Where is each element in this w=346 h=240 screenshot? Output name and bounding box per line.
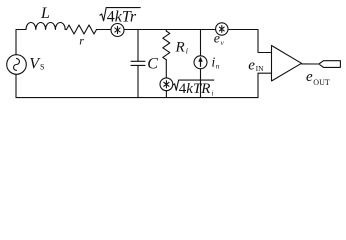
svg-text:i: i bbox=[212, 90, 214, 98]
sine symbol in VS bbox=[14, 59, 20, 71]
asterisk in noise source sqrt(4kTRi) bbox=[164, 81, 169, 88]
noise source circle sqrt(4kTr) bbox=[111, 24, 124, 37]
current source in branch top wire bbox=[200, 30, 202, 56]
current source in arrow bbox=[199, 57, 203, 67]
capacitor branch bottom wire bbox=[137, 65, 139, 97]
inductor L body bbox=[26, 23, 65, 30]
wire Ri to noise source bbox=[165, 60, 167, 78]
current source in branch bottom wire bbox=[200, 69, 202, 98]
svg-text:C: C bbox=[147, 55, 158, 72]
resistor r body bbox=[67, 25, 97, 34]
op-amp U1 triangle bbox=[272, 46, 302, 82]
svg-text:i: i bbox=[211, 56, 215, 71]
output connector bbox=[319, 61, 341, 68]
noise source circle sqrt(4kTRi) bbox=[160, 78, 173, 91]
svg-text:e: e bbox=[306, 69, 313, 85]
voltage source VS circle bbox=[7, 55, 27, 75]
wire resistor to noise source bbox=[97, 29, 112, 31]
svg-text:e: e bbox=[248, 58, 255, 74]
resistor Ri branch top wire bbox=[165, 30, 167, 32]
wire inductor to resistor bbox=[65, 29, 66, 31]
resistor Ri body bbox=[163, 31, 170, 60]
radical sign of sqrt(4kTr) bbox=[100, 8, 140, 21]
wire left vertical bottom bbox=[15, 74, 17, 97]
wire noise source to bottom rail bbox=[165, 91, 167, 98]
wire top middle bbox=[124, 29, 216, 31]
current source in circle bbox=[194, 56, 207, 69]
svg-text:r: r bbox=[79, 34, 84, 48]
asterisk in noise source sqrt(4kTr) bbox=[115, 26, 120, 33]
wire top right to amp input bbox=[228, 30, 272, 53]
svg-text:i: i bbox=[186, 47, 188, 56]
asterisk in noise source ev bbox=[219, 26, 224, 33]
wire bottom input to amp bbox=[258, 73, 272, 97]
svg-text:e: e bbox=[214, 32, 220, 47]
svg-text:n: n bbox=[216, 62, 220, 71]
radical sign of sqrt(4kTRi) bbox=[173, 80, 214, 90]
svg-text:R: R bbox=[175, 39, 185, 55]
capacitor C plates bbox=[131, 61, 145, 65]
wire amp output bbox=[302, 63, 319, 65]
noise source circle ev bbox=[216, 23, 228, 35]
svg-text:OUT: OUT bbox=[313, 78, 330, 87]
svg-text:v: v bbox=[221, 39, 225, 47]
svg-text:L: L bbox=[40, 5, 50, 22]
svg-text:IN: IN bbox=[256, 64, 264, 73]
capacitor branch top wire bbox=[137, 30, 139, 62]
svg-text:S: S bbox=[40, 62, 44, 71]
svg-text:4kTR: 4kTR bbox=[179, 81, 211, 97]
svg-text:4kTr: 4kTr bbox=[107, 8, 137, 25]
wire bottom rail bbox=[16, 97, 258, 99]
wire left vertical top bbox=[16, 30, 26, 55]
